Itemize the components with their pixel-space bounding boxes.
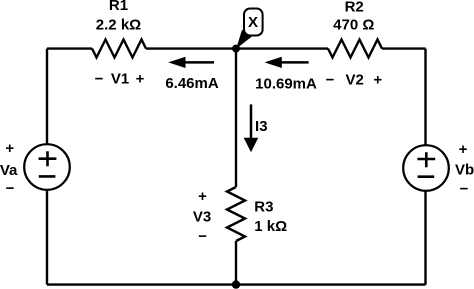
current arrow I3 [244, 104, 259, 152]
current arrow 6.46mA [168, 57, 214, 68]
svg-text:+: + [5, 140, 14, 157]
svg-text:−: − [460, 180, 469, 197]
wire right side lower [424, 191, 426, 285]
voltage source Va [24, 144, 70, 190]
svg-text:V1: V1 [111, 70, 129, 87]
bottom junction dot [232, 280, 240, 288]
svg-text:470 Ω: 470 Ω [333, 16, 374, 33]
svg-text:R1: R1 [109, 0, 128, 14]
svg-text:+: + [459, 141, 468, 158]
wire bottom [47, 283, 426, 285]
svg-text:V3: V3 [193, 208, 211, 225]
svg-text:+: + [373, 71, 382, 88]
svg-text:6.46mA: 6.46mA [165, 75, 219, 92]
svg-text:R3: R3 [254, 198, 273, 215]
wire top-right segment [382, 47, 426, 49]
node X callout [236, 9, 262, 49]
svg-text:+: + [198, 188, 207, 205]
resistor R3 [227, 187, 245, 241]
svg-text:Va: Va [0, 162, 18, 179]
svg-text:X: X [248, 14, 258, 31]
svg-text:−: − [6, 180, 15, 197]
svg-text:10.69mA: 10.69mA [255, 75, 317, 92]
svg-text:V2: V2 [346, 71, 364, 88]
wire top-middle segment [146, 47, 328, 49]
svg-text:I3: I3 [255, 118, 268, 135]
current arrow 10.69mA [265, 57, 309, 68]
svg-text:−: − [95, 70, 104, 87]
node X junction dot [232, 45, 240, 53]
wire left side upper [46, 49, 48, 145]
svg-text:−: − [198, 228, 207, 245]
svg-text:1 kΩ: 1 kΩ [254, 218, 287, 235]
wire middle vertical upper [235, 49, 237, 187]
resistor R2 [328, 40, 382, 58]
wire middle vertical lower [235, 241, 237, 285]
wire top-left segment [47, 47, 92, 49]
wire right side upper [424, 49, 426, 146]
resistor R1 [92, 40, 146, 58]
svg-text:+: + [136, 70, 145, 87]
svg-text:−: − [326, 71, 335, 88]
voltage source Vb [403, 145, 449, 191]
wire left side lower [46, 190, 48, 285]
svg-text:2.2 kΩ: 2.2 kΩ [96, 16, 141, 33]
svg-text:R2: R2 [345, 0, 364, 15]
svg-text:Vb: Vb [455, 162, 474, 179]
